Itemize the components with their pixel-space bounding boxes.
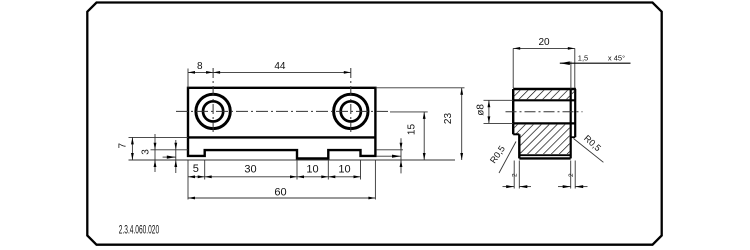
front view outline xyxy=(188,88,375,159)
corner hatched bit xyxy=(572,90,574,94)
dim 15 arrows xyxy=(423,112,426,119)
centerline extension to 15-dim xyxy=(390,111,428,113)
side view left edge xyxy=(512,89,514,134)
dim 20 line xyxy=(513,47,575,49)
left 2-dim lines and arrows xyxy=(503,186,515,188)
side view outer right vertical xyxy=(574,89,576,137)
long bottom extension line xyxy=(129,159,456,161)
vertical centerline hole 2 xyxy=(350,68,352,135)
small dim line left xyxy=(175,140,177,173)
side view top edge xyxy=(513,88,576,90)
svg-text:5: 5 xyxy=(193,163,199,175)
dim 60 arrows xyxy=(188,197,195,200)
svg-text:ø8: ø8 xyxy=(475,104,486,116)
dim o8 line xyxy=(488,100,490,123)
top hatched band xyxy=(514,90,569,99)
dim 23 arrows xyxy=(460,88,463,95)
dim o8 extension top xyxy=(484,99,514,101)
drawing frame xyxy=(87,3,661,245)
chamfer dim line xyxy=(560,62,631,64)
hole 2 outer circle xyxy=(334,94,368,128)
small dim line right xyxy=(400,138,402,173)
dim 20 extension right xyxy=(574,48,576,88)
right 2-dim lines and arrows xyxy=(558,186,571,188)
dim 20 extension left xyxy=(512,48,514,88)
small dim right arrows (outside) xyxy=(400,143,403,150)
hole 2 inner circle xyxy=(341,101,361,121)
dim 60 line xyxy=(188,197,375,199)
dim 3 arrows (outside) xyxy=(154,143,157,150)
side view hatch boundary line xyxy=(519,154,570,156)
svg-text:10: 10 xyxy=(338,163,350,175)
side view inner right vertical xyxy=(570,89,572,158)
dim 7 arrows xyxy=(131,137,134,144)
horizontal centerline front view xyxy=(176,110,390,112)
left extension line step (for dim 7) xyxy=(129,136,189,138)
svg-text:30: 30 xyxy=(244,163,256,175)
dim 3 line xyxy=(154,134,156,172)
svg-text:60: 60 xyxy=(274,187,286,199)
dim o8 extension bottom xyxy=(484,122,514,124)
recess extension right xyxy=(377,149,403,151)
chamfer arrow xyxy=(560,61,570,65)
dim 20 arrows xyxy=(513,47,520,50)
hole 1 inner circle xyxy=(203,101,223,121)
svg-text:3: 3 xyxy=(141,149,152,155)
side view left lower edge xyxy=(518,134,520,158)
svg-text:2: 2 xyxy=(512,173,519,177)
row1 arrows xyxy=(188,175,195,178)
vertical centerline hole 1 xyxy=(212,68,214,135)
bottom row1 extension lines xyxy=(187,160,189,200)
bottom 2-dims extension lines xyxy=(513,161,515,189)
dim 44 arrows xyxy=(213,71,220,74)
svg-text:7: 7 xyxy=(118,142,129,148)
R0.5 left leader xyxy=(499,142,516,174)
hole 1 outer circle xyxy=(196,94,230,128)
svg-text:2.3.4.060.020: 2.3.4.060.020 xyxy=(119,224,159,238)
svg-text:10: 10 xyxy=(306,163,318,175)
side view centerline xyxy=(506,111,583,113)
dim 23 line xyxy=(461,88,463,160)
dim 15 line xyxy=(423,112,425,160)
lower hatched band xyxy=(514,125,569,154)
dim 7 line xyxy=(131,137,133,160)
svg-text:15: 15 xyxy=(407,124,418,136)
small dim right leader arrow xyxy=(377,155,401,157)
top dimension line xyxy=(188,71,351,73)
svg-text:23: 23 xyxy=(443,113,454,125)
bottom dim row1 line xyxy=(188,176,361,178)
side view bottom edge xyxy=(519,157,570,159)
svg-text:44: 44 xyxy=(274,61,286,72)
svg-text:8: 8 xyxy=(197,61,203,72)
dim 8 arrows xyxy=(188,71,195,74)
top left extension line xyxy=(187,69,189,88)
side view hole bottom line xyxy=(513,122,575,124)
svg-text:2: 2 xyxy=(568,173,575,177)
small dim left arrows (outside) xyxy=(174,143,177,150)
chamfer extension line xyxy=(570,62,572,90)
right extension line top (for dim 23) xyxy=(375,87,464,89)
side view hatch (drawn as pattern group) xyxy=(514,90,574,154)
svg-text:20: 20 xyxy=(538,37,550,48)
side view right step xyxy=(571,136,576,138)
left extension line recess (for dim 3) xyxy=(151,149,189,151)
small dim left leader arrow xyxy=(163,156,176,158)
dim o8 arrows xyxy=(488,100,491,107)
front view step line xyxy=(188,136,375,138)
side view left step xyxy=(513,133,519,135)
side view hole top line xyxy=(513,99,575,101)
svg-text:1,5: 1,5 xyxy=(578,54,588,63)
R0.5 right leader xyxy=(574,139,604,163)
svg-text:x 45°: x 45° xyxy=(608,54,625,63)
